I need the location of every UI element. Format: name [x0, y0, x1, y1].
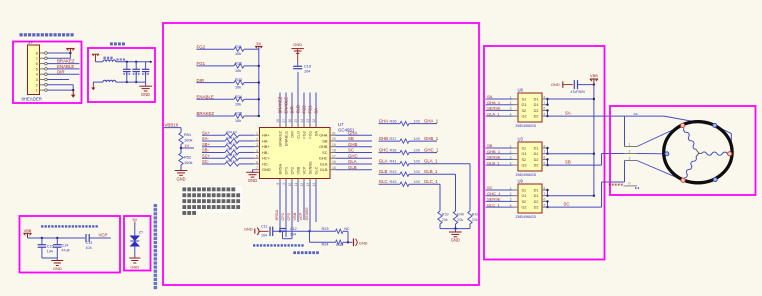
- svg-text:100: 100: [414, 170, 420, 174]
- wire DIR to R33: [197, 82, 235, 84]
- U3 pin 2: [510, 150, 518, 154]
- wire SENSE (bottom): [309, 182, 311, 232]
- svg-text:D1: D1: [534, 188, 539, 192]
- svg-text:BRAKEZ: BRAKEZ: [277, 96, 282, 113]
- return port (box2 bottom-left): [91, 82, 95, 90]
- ground arrow (box1): [71, 90, 76, 98]
- wire FG1 (top): [309, 93, 311, 124]
- svg-text:7: 7: [544, 101, 546, 105]
- svg-text:D2: D2: [534, 158, 539, 162]
- junction C14: [56, 237, 58, 239]
- svg-text:3: 3: [256, 143, 258, 147]
- svg-text:GHA_1: GHA_1: [424, 119, 439, 124]
- junction 5V bus row 3: [258, 98, 260, 100]
- svg-text:GHC_1: GHC_1: [487, 191, 501, 196]
- U3 pin 1: [510, 144, 518, 148]
- motor connector pin 2: [625, 150, 638, 154]
- resistor R24 0.02: [322, 240, 344, 247]
- wire to U7 pin 3: [239, 146, 254, 148]
- capacitor C11 104: [261, 225, 273, 238]
- svg-text:104: 104: [304, 69, 310, 73]
- resistor R36 100: [390, 120, 420, 126]
- junction top rail c2: [135, 61, 137, 63]
- svg-text:1: 1: [629, 143, 631, 147]
- wire GLA ladder left: [379, 163, 401, 165]
- junction VBB rail U9: [593, 195, 595, 197]
- svg-text:SC: SC: [322, 150, 328, 155]
- ground (cap box): [51, 258, 63, 271]
- resistor R46 10: [225, 142, 239, 149]
- svg-text:R34: R34: [235, 95, 242, 99]
- wire to R51: [180, 128, 182, 133]
- power symbol 5V: [255, 41, 262, 48]
- wire U9 D1 to VBB rail: [548, 195, 594, 197]
- connector pin 3: [36, 78, 48, 82]
- ground port (R24): [348, 239, 368, 247]
- wire DIR (pin4): [47, 73, 79, 75]
- U7 pin 4: [254, 149, 260, 153]
- note: hall signal input text block: [181, 186, 242, 215]
- transistor pack U8 body: [518, 93, 542, 122]
- U8 pin 6: [542, 107, 548, 111]
- wire R33 to 5V bus: [244, 82, 259, 84]
- svg-text:HB-: HB-: [262, 150, 269, 155]
- wire GHC_1 input: [486, 195, 513, 197]
- svg-text:GLB: GLB: [379, 169, 388, 174]
- svg-text:C12: C12: [290, 227, 297, 231]
- wire GHC_1: [409, 152, 437, 154]
- motor winding C (wavy): [685, 157, 697, 178]
- wire GLB_1 input: [486, 164, 513, 166]
- resistor R49 10: [225, 159, 239, 166]
- inductor L? (top rail): [103, 60, 116, 62]
- svg-text:2: 2: [256, 137, 258, 141]
- svg-text:5: 5: [544, 161, 546, 165]
- svg-text:GLB: GLB: [348, 165, 357, 170]
- section title: power & control signal input: [20, 33, 74, 36]
- svg-text:BRAKEZ: BRAKEZ: [57, 59, 75, 64]
- wire GHB ladder left: [379, 140, 401, 142]
- wire R34 to 5V bus: [244, 98, 259, 100]
- motor frame terminal 0: [609, 182, 639, 189]
- motor tap node 2 (blue): [665, 152, 669, 156]
- wire C11 to BRSA: [273, 230, 310, 232]
- resistor R40 20k: [453, 211, 464, 224]
- svg-text:S2: S2: [522, 200, 527, 204]
- svg-text:6: 6: [256, 160, 258, 164]
- svg-text:SB: SB: [487, 143, 493, 148]
- wire SA-: [202, 140, 225, 142]
- svg-text:VBB: VBB: [590, 73, 598, 78]
- junction bottom rail c2: [135, 81, 137, 83]
- svg-text:VBB16: VBB16: [165, 122, 179, 127]
- svg-text:5V: 5V: [256, 41, 261, 46]
- svg-text:1: 1: [36, 89, 38, 93]
- svg-text:SA: SA: [565, 111, 571, 116]
- U7 pin names: [262, 130, 328, 174]
- wire SB+: [202, 146, 225, 148]
- note: cap voltage rating (box6): [41, 225, 98, 227]
- svg-text:FG1: FG1: [307, 131, 312, 139]
- svg-text:SENSE: SENSE: [487, 106, 501, 111]
- svg-text:S2: S2: [522, 109, 527, 113]
- svg-text:R41: R41: [390, 160, 397, 164]
- svg-text:BRAKEZ: BRAKEZ: [277, 130, 282, 146]
- section frame motor box: [610, 106, 756, 195]
- wire GLC ladder left: [379, 183, 401, 185]
- wire U9 D1 join: [546, 189, 548, 197]
- wire U9 D2 join: [546, 200, 548, 208]
- wire SA phase: [548, 115, 625, 117]
- note: vertical comment column: [154, 204, 158, 289]
- wire GLA_1 input: [486, 115, 513, 117]
- junction VBB cap: [593, 83, 595, 85]
- svg-text:ZMD4966GD: ZMD4966GD: [516, 173, 537, 177]
- resistor R38 100: [390, 149, 420, 155]
- U7 bottom pin 14 (GLC): [312, 179, 316, 187]
- svg-text:CLD: CLD: [295, 131, 300, 139]
- svg-text:ENABLE: ENABLE: [197, 95, 214, 100]
- svg-text:10k: 10k: [235, 119, 241, 123]
- U7 right pin 18: [330, 149, 336, 153]
- junction pins 1-2: [72, 85, 74, 92]
- svg-text:GLB_1: GLB_1: [424, 169, 438, 174]
- ground (pulldowns): [449, 229, 462, 243]
- svg-text:D1: D1: [534, 103, 539, 107]
- U7 right pin 19: [330, 143, 336, 147]
- wire VBB to caps: [28, 237, 86, 239]
- wire ENABLE to R34: [197, 98, 235, 100]
- connector pin 7: [36, 57, 48, 61]
- U7 pin 3: [254, 143, 260, 147]
- svg-text:VCP: VCP: [298, 212, 303, 220]
- wire GHA_1 input: [486, 104, 513, 106]
- svg-text:ENABLE: ENABLE: [283, 131, 288, 147]
- ground above C19: [292, 42, 304, 61]
- svg-text:SB: SB: [322, 138, 328, 143]
- svg-text:GND: GND: [293, 42, 302, 47]
- svg-text:ENABLE: ENABLE: [283, 97, 288, 114]
- U9 pin 4: [510, 203, 518, 207]
- wire to U7 pin 1: [239, 134, 254, 136]
- svg-text:47uF: 47uF: [62, 248, 71, 252]
- svg-text:D2: D2: [534, 109, 539, 113]
- resistor R51: [179, 132, 193, 145]
- svg-text:GND: GND: [130, 264, 139, 269]
- svg-text:6: 6: [544, 156, 546, 160]
- resistor R34 10k: [234, 95, 244, 106]
- svg-text:SC-: SC-: [202, 159, 210, 164]
- svg-text:0: 0: [629, 182, 631, 186]
- svg-text:CP2: CP2: [286, 213, 291, 221]
- wire fan pin2 to winding B: [637, 153, 667, 155]
- junction pins 7-8: [69, 52, 71, 59]
- svg-text:BRSA: BRSA: [274, 210, 279, 221]
- svg-text:HA-: HA-: [262, 138, 269, 143]
- svg-text:GND: GND: [451, 238, 460, 243]
- svg-text:DIR: DIR: [197, 78, 205, 83]
- U9 pin 2: [510, 192, 518, 196]
- U3 pin names: [522, 146, 539, 167]
- svg-text:1: 1: [256, 132, 258, 136]
- svg-text:GND: GND: [244, 227, 253, 232]
- svg-text:VBB: VBB: [292, 212, 297, 220]
- svg-text:GHA: GHA: [348, 130, 357, 135]
- wire bottom rail: [116, 81, 146, 83]
- U3 pin 4: [510, 161, 518, 165]
- svg-text:J?: J?: [28, 40, 33, 45]
- svg-text:C15: C15: [47, 245, 54, 249]
- note: C12 voltage rating: [253, 244, 305, 248]
- svg-text:SB-: SB-: [202, 148, 209, 153]
- ground (U7 pin7): [246, 171, 259, 173]
- svg-text:R32: R32: [235, 62, 242, 66]
- svg-text:7: 7: [256, 166, 258, 170]
- svg-text:VBB: VBB: [295, 166, 300, 174]
- svg-text:10k: 10k: [235, 69, 241, 73]
- svg-text:R37: R37: [390, 137, 397, 141]
- wire DIR (top): [291, 93, 293, 124]
- wire SC (right): [336, 151, 373, 153]
- U7 right pin 16: [330, 160, 336, 164]
- svg-text:D1: D1: [534, 97, 539, 101]
- svg-text:ENABLE: ENABLE: [57, 64, 74, 69]
- motor tap node 3 (blue): [713, 178, 717, 182]
- wire U3 D1 join: [546, 147, 548, 155]
- wire GHC (right): [336, 157, 373, 159]
- section frame box 1: [13, 42, 82, 104]
- svg-text:G1: G1: [522, 152, 527, 156]
- svg-text:GLC: GLC: [313, 166, 318, 174]
- svg-text:FG2: FG2: [197, 44, 206, 49]
- wire R39 vertical: [439, 184, 441, 211]
- svg-text:GND: GND: [176, 176, 185, 181]
- wire CLD (top): [297, 72, 299, 123]
- svg-text:8HEADER: 8HEADER: [22, 97, 42, 102]
- motor winding B (wavy): [702, 152, 728, 155]
- wire R42 vertical: [469, 164, 471, 211]
- motor winding center node: [696, 149, 702, 157]
- U7 bottom pin 13 (SENSE): [306, 179, 310, 187]
- capacitor C13 104 (series): [86, 234, 93, 250]
- svg-text:R49 10: R49 10: [227, 159, 237, 163]
- U8 pin 1: [510, 95, 518, 99]
- svg-text:GHA: GHA: [319, 133, 328, 138]
- svg-text:R51: R51: [184, 132, 191, 137]
- svg-text:100: 100: [414, 149, 420, 153]
- wire to U7 pin 4: [239, 151, 254, 153]
- resistor R39 20k: [438, 211, 449, 224]
- resistor R52: [179, 153, 193, 165]
- resistor R23 NC: [322, 227, 350, 234]
- svg-text:R39: R39: [442, 213, 449, 217]
- svg-text:GLC: GLC: [379, 179, 388, 184]
- U8 pin 3: [510, 107, 518, 111]
- svg-text:GLC_1: GLC_1: [487, 202, 500, 207]
- wire VBB rail: [593, 85, 595, 196]
- capacitor C? at x=126.8: [123, 62, 131, 82]
- svg-text:GND: GND: [359, 241, 368, 246]
- wire CP2 (bottom): [291, 182, 293, 239]
- wire SC input: [486, 189, 513, 191]
- wire C13 to VCP: [89, 237, 111, 239]
- wire GLB (right): [336, 169, 373, 171]
- svg-text:G1: G1: [522, 103, 527, 107]
- svg-text:CP1: CP1: [283, 167, 288, 175]
- svg-text:U8: U8: [518, 88, 524, 93]
- svg-text:7: 7: [36, 57, 38, 61]
- wire GHB_1: [409, 140, 437, 142]
- wire pin3 stub: [47, 79, 69, 81]
- wire SB phase: [548, 154, 625, 166]
- svg-text:C14: C14: [62, 244, 69, 248]
- wire U8 D1 join: [546, 98, 548, 106]
- svg-text:SENSE: SENSE: [487, 155, 501, 160]
- svg-text:C13: C13: [86, 241, 93, 245]
- wire SA to motor top: [625, 116, 732, 152]
- junction 5V bus row 4: [258, 115, 260, 117]
- resistor R47 10: [225, 147, 239, 154]
- wire divider tap: [181, 147, 194, 149]
- wire VCP (bottom): [303, 182, 305, 220]
- wire GHC ladder left: [379, 152, 401, 154]
- svg-text:R45: R45: [390, 180, 397, 184]
- wire SC phase: [548, 182, 625, 207]
- U7 right pin 21: [330, 131, 336, 135]
- svg-text:G2: G2: [522, 164, 527, 168]
- wire R32 to 5V bus: [244, 65, 259, 67]
- junction top rail c1: [126, 61, 128, 63]
- svg-text:17: 17: [332, 154, 336, 158]
- resistor R45 100: [390, 180, 420, 186]
- svg-text:21: 21: [332, 131, 336, 135]
- svg-text:3: 3: [36, 78, 38, 82]
- svg-text:GHC_1: GHC_1: [424, 148, 439, 153]
- wire TVS to gnd: [134, 247, 136, 259]
- junction C15: [41, 237, 43, 239]
- wire pin7 to ground: [253, 170, 255, 173]
- ground (TVS): [129, 258, 140, 269]
- svg-text:ZMD4966GD: ZMD4966GD: [516, 124, 537, 128]
- svg-text:FG2: FG2: [301, 131, 306, 139]
- U7 right pin 17: [330, 154, 336, 158]
- wire R23 right: [343, 230, 348, 232]
- svg-text:20k: 20k: [457, 218, 463, 222]
- wire BRAKEZ (top): [279, 93, 281, 124]
- svg-text:SC+: SC+: [202, 153, 211, 158]
- svg-text:VCP: VCP: [301, 166, 306, 174]
- op-amp U7 body (GC4951): [260, 128, 331, 179]
- svg-text:HC-: HC-: [262, 161, 270, 166]
- wire GLC_1 input: [486, 206, 513, 208]
- ground port (VBB cap): [551, 81, 573, 87]
- connector J? body: [28, 45, 40, 95]
- svg-text:100: 100: [414, 160, 420, 164]
- svg-text:U3: U3: [518, 137, 524, 142]
- svg-text:GLC_1: GLC_1: [424, 179, 438, 184]
- label L? value: [104, 57, 113, 59]
- svg-text:BRAKEZ: BRAKEZ: [197, 111, 215, 116]
- ground (divider): [175, 170, 188, 172]
- wire GHA_1: [409, 123, 437, 125]
- svg-text:SENSE: SENSE: [304, 207, 309, 221]
- connector pin 4: [36, 73, 48, 77]
- svg-text:GHC: GHC: [319, 156, 328, 161]
- svg-text:10k: 10k: [235, 102, 241, 106]
- svg-text:DIR: DIR: [57, 69, 65, 74]
- svg-text:C11: C11: [261, 225, 267, 229]
- junction top rail c3: [150, 61, 152, 63]
- motor terminal node C (red): [681, 178, 685, 182]
- junction SENSE node: [308, 230, 310, 232]
- wire 5V bus: [258, 46, 260, 116]
- svg-text:20k: 20k: [442, 218, 448, 222]
- U9 pin 1: [510, 186, 518, 190]
- svg-text:R35: R35: [235, 112, 242, 116]
- connector pin 8: [36, 52, 48, 56]
- U8 pin 4: [510, 112, 518, 116]
- U8 pin 8: [542, 95, 548, 99]
- U9 pin 7: [542, 192, 548, 196]
- note: package size: [293, 251, 321, 256]
- svg-text:R47 10: R47 10: [227, 147, 237, 151]
- resistor R43 100: [390, 170, 420, 176]
- U7 top pin 27 (ENABLE): [282, 119, 286, 128]
- svg-text:SB+: SB+: [202, 142, 210, 147]
- wire SC+: [202, 157, 225, 159]
- transistor pack U3 body: [518, 142, 542, 171]
- svg-text:5: 5: [544, 203, 546, 207]
- svg-text:SC: SC: [564, 202, 570, 207]
- svg-text:SB: SB: [348, 136, 354, 141]
- connector pin 5: [36, 67, 48, 71]
- svg-text:HA+: HA+: [262, 133, 270, 138]
- wire pin7 to VBB rail: [47, 57, 70, 59]
- tvs diode Z?: [130, 231, 144, 247]
- connector pin 6: [36, 62, 48, 66]
- svg-text:S1: S1: [522, 97, 527, 101]
- svg-text:S1: S1: [522, 188, 527, 192]
- svg-text:GND: GND: [551, 82, 560, 87]
- svg-text:5V: 5V: [133, 218, 138, 222]
- svg-text:GLA: GLA: [348, 159, 357, 164]
- svg-text:8: 8: [544, 186, 546, 190]
- svg-text:R31: R31: [235, 45, 242, 49]
- svg-text:100: 100: [414, 120, 420, 124]
- svg-text:DIR: DIR: [289, 131, 294, 138]
- U8 pin 5: [542, 112, 548, 116]
- motor tap node 1 (blue): [713, 123, 717, 127]
- svg-text:R43: R43: [390, 170, 397, 174]
- U8 pin 2: [510, 101, 518, 105]
- U7 pin 1: [254, 132, 260, 136]
- svg-text:FG1: FG1: [197, 61, 206, 66]
- svg-text:SA: SA: [313, 131, 318, 137]
- junction bottom rail c1: [126, 81, 128, 83]
- capacitor 47uF/50V: [571, 80, 586, 94]
- wire GHB (right): [336, 146, 373, 148]
- wire GHA ladder left: [379, 123, 401, 125]
- svg-text:104: 104: [290, 232, 296, 236]
- motor connector pin 3: [625, 157, 638, 161]
- svg-text:U9: U9: [518, 179, 524, 184]
- svg-text:100k: 100k: [184, 160, 192, 165]
- svg-text:R42: R42: [472, 213, 479, 217]
- svg-text:SC: SC: [348, 148, 354, 153]
- U3 pin 6: [542, 156, 548, 160]
- svg-text:SA: SA: [313, 108, 318, 114]
- U7 bottom pin 8 (BRSA): [276, 179, 280, 185]
